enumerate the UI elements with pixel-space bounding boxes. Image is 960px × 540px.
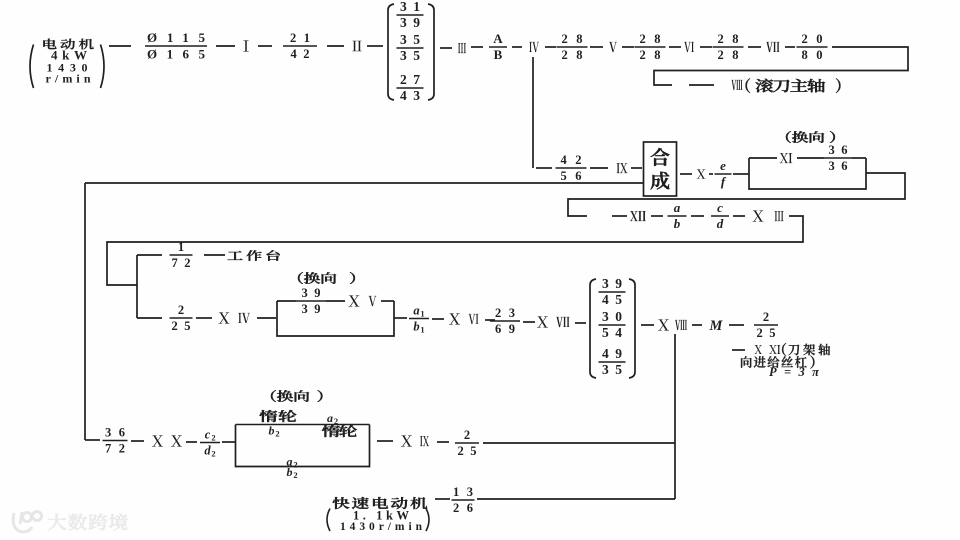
wire to shaft I [216,45,235,47]
wire to shaft II [327,45,344,47]
svg-text:25: 25 [458,444,477,458]
wire gear stack to shaft III [440,47,452,49]
svg-text:B: B [494,47,503,62]
wire shaft XII to a/b [651,215,663,217]
gear ratio fraction 13/26 [452,485,475,515]
motor block: main motor 4kW 1430 r/min with parentheses [30,39,104,88]
change gear fraction A/B [489,31,507,62]
wire shaft VII to gear 20/80 [785,46,795,48]
wire shaft V to gear 28/28 [622,46,634,48]
gear ratio fraction 36/72 [103,425,128,455]
wire left column vertical [84,183,86,440]
wire to gear 42/56 [536,167,552,169]
change gear fraction e/f [715,158,732,189]
gear ratio fraction 28/28 second [635,32,666,62]
reversing mechanism box with shaft XI and 36/36 [749,143,866,189]
svg-text:69: 69 [495,322,515,336]
svg-text:28: 28 [640,32,661,46]
svg-text:Ø115: Ø115 [147,30,206,45]
wire long feed line from composition box to left column [85,182,643,184]
svg-text:30: 30 [602,309,622,324]
svg-text:21: 21 [290,31,310,45]
gear ratio fraction 28/28 third [713,32,744,62]
differential composition box 合成 [644,142,677,196]
svg-text:54: 54 [602,325,622,340]
svg-text:26: 26 [453,501,473,515]
shaft XVI: X and VI glyphs [449,313,460,324]
shaft II [352,41,361,52]
feed gear stack bracket group 39/45 30/54 49/35 [590,276,635,378]
gear ratio fraction 2/25 feed [754,310,778,340]
label shaft XXI tool post axial feed screw [732,343,830,379]
svg-text:a: a [327,411,333,425]
svg-text:2: 2 [178,303,184,317]
rapid motor block 快速电动机 1.1kW 1430r/min [327,497,429,533]
svg-text:Ø165: Ø165 [147,46,206,61]
svg-text:2: 2 [211,433,215,443]
wire rapid motor to 13/26 [435,498,450,500]
svg-text:13: 13 [453,485,473,499]
svg-text:e: e [720,158,726,173]
svg-text:d: d [204,444,211,458]
shaft III [458,43,466,53]
wire shaft XVIII to clutch M [692,324,702,326]
svg-text:35: 35 [602,362,622,377]
reversing mechanism box with 39/39 and shaft XV [277,286,394,336]
svg-text:1430r/min: 1430r/min [340,521,423,533]
wire to shaft VI [669,46,681,48]
wire c/d to shaft XIII [733,215,745,217]
svg-text:36: 36 [105,425,125,439]
svg-text:28: 28 [718,48,739,62]
wire to shaft IX [590,167,608,169]
shaft VI [684,42,694,52]
svg-text:72: 72 [105,442,125,456]
label (reversing) 换向 upper [786,131,824,143]
svg-text:2: 2 [293,459,297,469]
wire a1/b1 to shaft XVI [432,318,444,320]
svg-text:2: 2 [211,449,215,459]
svg-text:42: 42 [291,47,310,61]
gear ratio fraction 20/80 [797,32,828,62]
watermark logo [13,512,41,532]
svg-text:2: 2 [275,429,279,439]
svg-text:43: 43 [400,88,420,103]
wire XI box to feed loop: right, down, left, down with foot [568,173,905,216]
svg-text:f: f [721,174,727,189]
worm gear fraction 1/72 [170,240,193,270]
change gear fraction a1/b1 [409,304,429,335]
wire to shaft V [590,46,603,48]
gear ratio fraction 2/25 [170,303,193,333]
wire 2/25 to shaft XIV [196,317,212,319]
svg-text:45: 45 [602,292,622,307]
wire box XV to a1/b1 [394,317,407,319]
svg-text:39: 39 [302,302,321,316]
change gear fraction a/b [668,200,687,231]
svg-text:b: b [269,424,275,438]
svg-text:31: 31 [400,0,420,14]
shaft XX: two X glyphs [152,435,163,446]
svg-text:80: 80 [802,48,823,62]
svg-text:39: 39 [602,276,622,291]
gear ratio fraction 21/42 [283,31,317,61]
svg-text:39: 39 [302,286,321,300]
gear ratio fraction 42/56 [556,153,587,183]
wire shaft IV vertical drop [532,57,534,168]
wire shaft I to gear 21/42 [258,45,272,47]
gear ratio fraction 23/69 [490,306,520,336]
shaft IV [529,42,539,52]
wire shaft IV to gear 28/28 [545,46,556,48]
wire 23/69 to shaft XVII [523,321,535,323]
shaft VIII hob spindle [732,80,743,90]
wire stack to shaft XVIII [641,324,654,326]
wire branch to worm 1/72 [137,254,162,256]
svg-text:1: 1 [178,240,184,254]
svg-text:25: 25 [757,326,776,340]
shaft XVIII: X and VIII glyphs [658,319,669,330]
wire c2/d2 to idler reversing box [222,441,235,443]
wire shaft VI to gear 28/28 [700,46,712,48]
svg-text:A: A [493,31,503,46]
shaft V [609,42,617,52]
wire 1/72 to worktable label [204,254,225,256]
svg-text:36: 36 [829,159,848,173]
svg-text:36: 36 [829,143,848,157]
svg-text:28: 28 [718,32,739,46]
wire shaft III to A/B [471,46,483,48]
wire shaft X to e/f [709,173,713,175]
svg-text:49: 49 [602,346,622,361]
wire shaft XIII down to table branch line [107,216,803,285]
wire idler box to shaft XIX [377,440,393,442]
svg-text:d: d [717,216,724,231]
branch bracket vertical for worktable and feed [136,255,138,318]
wire shaft II to gear stack [367,45,383,47]
wire motor to pulley fraction [109,45,131,47]
shaft XIV: X and IV glyphs [218,312,229,323]
svg-text:1: 1 [420,309,424,319]
svg-text:2: 2 [334,416,338,426]
shaft XVII: X and VII glyphs [537,316,548,327]
label (hob spindle) text 滚刀主轴 [746,78,750,93]
svg-text:27: 27 [400,72,420,87]
svg-text:39: 39 [400,15,420,30]
wire shaft XVI to 23/69 [485,319,495,321]
shaft I [243,40,248,51]
wire to shaft VII [748,46,761,48]
wire A/B to shaft IV [512,46,522,48]
svg-text:M: M [709,318,724,334]
svg-text:42: 42 [561,153,582,167]
svg-text:b: b [413,320,419,334]
wire 13/26 to shaft XVIII vertical [477,498,675,500]
gear stack bracket group 31/39 35/35 27/43 [388,0,434,103]
shaft VII [766,42,779,52]
wire a/b to c/d [691,215,704,217]
belt pulley ratio fraction Ø115/Ø165 [145,30,207,62]
svg-text:20: 20 [802,32,823,46]
svg-text:2: 2 [464,428,470,442]
wire to shaft VIII label [689,84,714,86]
wire to shaft XII [612,215,627,217]
shaft XIX: X and IX glyphs [401,435,412,446]
wire shaft XIV to reversing box XV [257,317,276,319]
watermark text 大数跨境 [48,514,128,531]
wire 2/25 rapid to shaft XVIII vertical [483,442,675,444]
svg-text:2: 2 [763,310,769,324]
svg-text:35: 35 [400,48,420,63]
svg-text:28: 28 [562,48,583,62]
wire composition box to shaft X [680,173,692,175]
svg-text:25: 25 [172,319,191,333]
svg-text:28: 28 [562,32,583,46]
wire e/f to reversing box XI [733,173,749,175]
svg-text:c: c [205,428,211,442]
svg-text:28: 28 [640,48,661,62]
wire shaft XVII to feed gear stack [575,322,586,324]
wire shaft XIX to 2/25 rapid [437,441,449,443]
wire branch to gear 2/25 [137,317,162,319]
label (reversing) 换向 lower [271,390,309,402]
wire 20/80 to hob spindle loop: right, down, left, down [654,47,908,85]
svg-text:b: b [674,216,681,231]
change gear fraction c2/d2 [200,428,220,459]
shaft IX [616,163,627,173]
svg-text:1: 1 [420,325,424,335]
label (reversing) 换向 middle [298,272,336,284]
gear ratio fraction 2/25 rapid [455,428,479,458]
svg-text:23: 23 [495,306,515,320]
wire 36/72 to shaft XX [131,440,144,442]
wire clutch M to 2/25 [729,324,744,326]
svg-text:c: c [717,200,723,215]
gear ratio fraction 28/28 first [557,32,588,62]
svg-text:a: a [413,304,419,318]
svg-text:35: 35 [400,32,420,47]
shaft XII [630,211,646,221]
svg-text:2: 2 [293,470,297,480]
shaft X [697,169,706,178]
wire shaft XVIII vertical drop [674,334,676,499]
svg-text:56: 56 [561,169,582,183]
wire left column to 36/72 [85,439,100,441]
idler reversing box with 惰轮/b2 a2/惰轮 a2/b2 [236,410,370,480]
wire shaft XX to c2/d2 [186,441,197,443]
svg-text:72: 72 [172,256,191,270]
svg-text:b: b [287,465,293,479]
change gear fraction c/d [711,200,729,231]
shaft XIII: X and III glyphs [752,210,763,221]
svg-text:a: a [674,200,681,215]
wire shaft IX to composition box [631,167,642,169]
label worktable 工作台 [228,250,280,261]
